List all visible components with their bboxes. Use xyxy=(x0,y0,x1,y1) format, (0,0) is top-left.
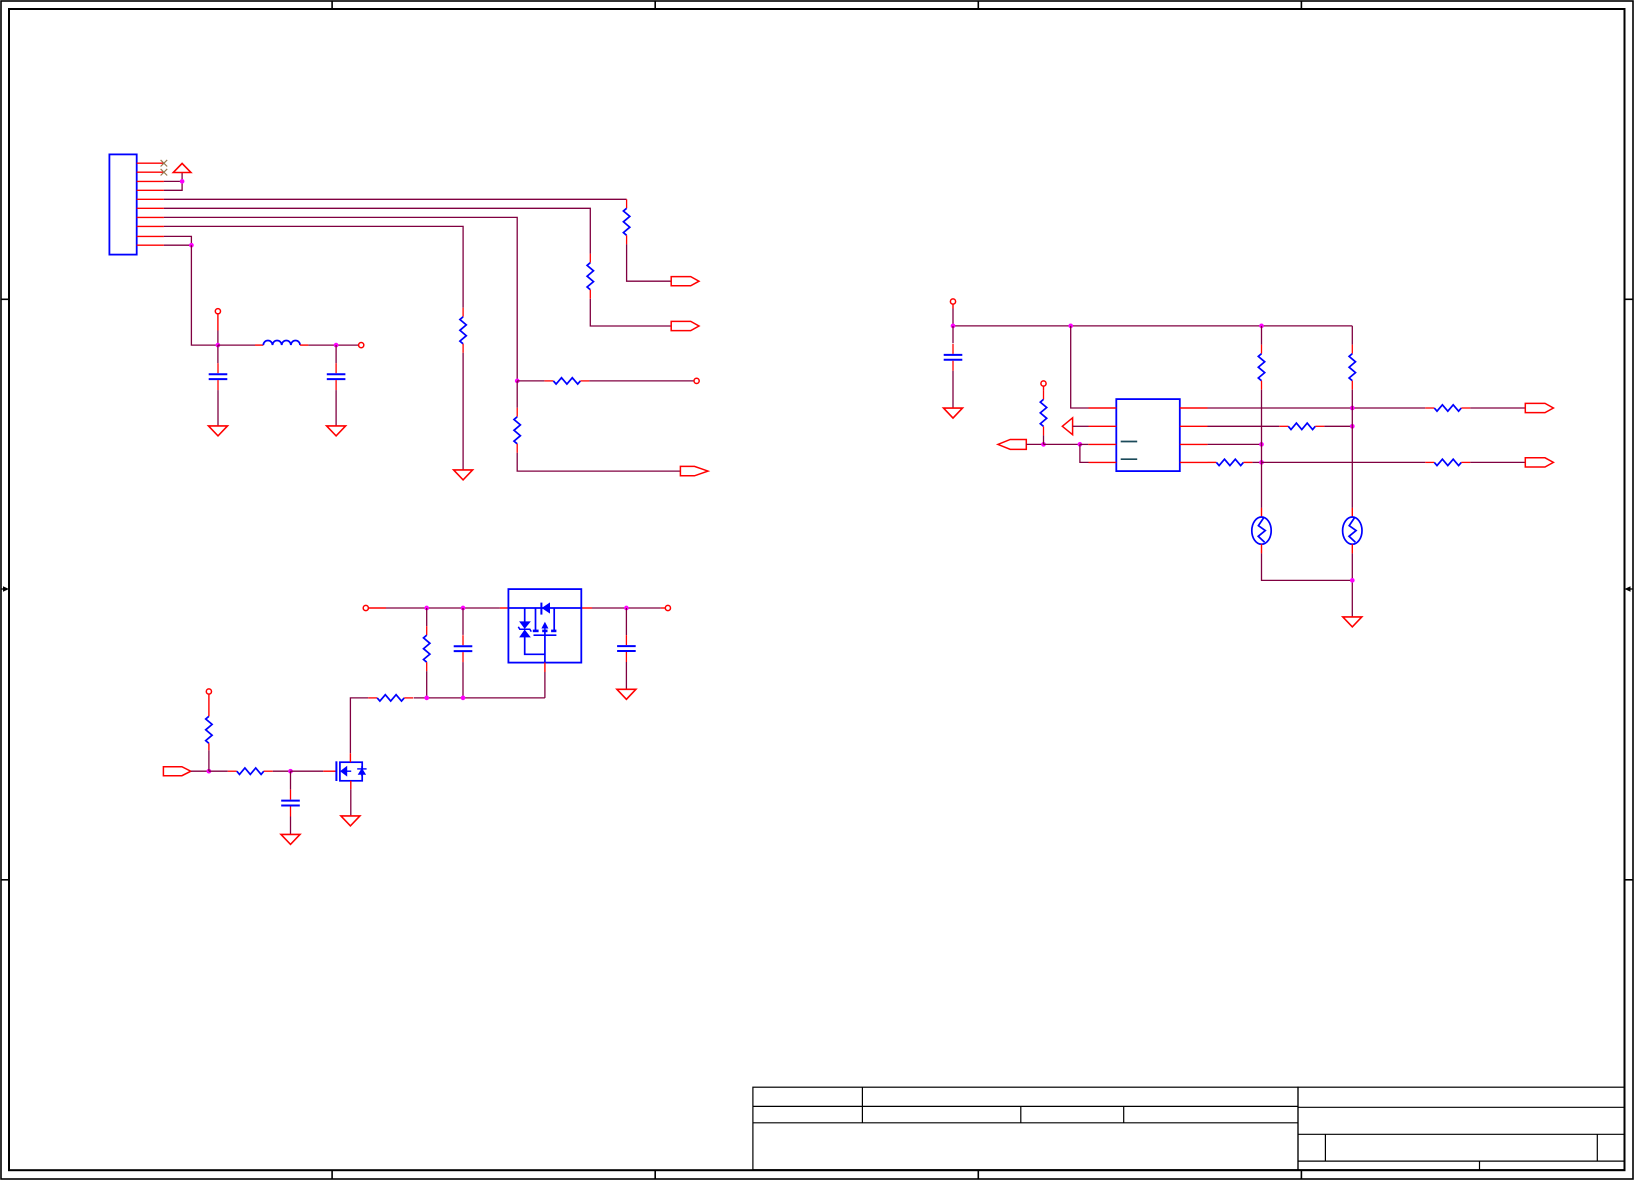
capacitor C2 xyxy=(327,363,346,390)
wire Q2 source pin xyxy=(544,663,546,698)
resistor R15 xyxy=(1425,405,1470,411)
wire R12 to junction xyxy=(208,750,210,771)
wire C1 to ground xyxy=(217,390,219,426)
IC U1 pin 4 xyxy=(1089,461,1117,463)
wire node VIN stub xyxy=(217,314,219,345)
wire R11 left corner xyxy=(350,698,368,753)
wire R7 to V1 xyxy=(1252,461,1261,463)
wire V1 lower xyxy=(1261,444,1263,508)
no-connect X pin 2 xyxy=(161,169,168,176)
port IN3 xyxy=(163,767,190,776)
resistor R8 xyxy=(1279,423,1324,429)
port OUT5 xyxy=(1525,458,1553,467)
wire L1 to node B xyxy=(300,344,359,346)
IC U1 pin 7 xyxy=(1180,425,1208,427)
junction rail at C4 xyxy=(461,606,466,611)
capacitor C5 xyxy=(617,635,636,662)
wire node A down to C1 xyxy=(217,345,219,363)
junction VCC rail at R14 xyxy=(1259,324,1264,329)
junction rail at C5 xyxy=(624,606,629,611)
wire U1 pin8 net OUTA xyxy=(1208,407,1426,409)
wire C3 top xyxy=(952,326,954,343)
resistor R2 xyxy=(587,254,593,299)
power port VCC P1 xyxy=(173,163,191,181)
connector J1 xyxy=(109,154,136,254)
wire U1 pin6 to V1 xyxy=(1208,443,1262,445)
junction node B xyxy=(334,343,339,348)
junction R8 at V2 xyxy=(1350,424,1355,429)
wire pin9 xyxy=(164,236,192,245)
node VOUT xyxy=(359,343,364,348)
junction pins 3-4 xyxy=(180,179,185,184)
junction V2 bottom xyxy=(1350,578,1355,583)
wire R10 top xyxy=(426,608,428,626)
wire Q2 to rail right xyxy=(581,607,626,609)
IC U1 xyxy=(1116,399,1180,471)
node VOUT2_L xyxy=(363,605,368,610)
port IN1 xyxy=(998,439,1026,449)
ground G6 xyxy=(617,689,636,699)
junction gate node B2 xyxy=(288,769,293,774)
IC U1 pin 2 xyxy=(1089,425,1117,427)
junction R6 bottom xyxy=(1041,442,1046,447)
wire VCC2 stub xyxy=(952,304,954,326)
wire N3 down to R4 xyxy=(516,381,518,408)
wire R4 to port OUT3 xyxy=(517,453,680,471)
junction OUTA at V2 xyxy=(1350,406,1355,411)
wire pin5 net N1 xyxy=(164,198,627,200)
zone ticks top xyxy=(332,1,1301,9)
wire R5 to ground xyxy=(462,353,464,470)
wire N3 to R3 xyxy=(517,380,544,382)
wire DS1 to bottom xyxy=(1262,553,1353,580)
connector J1 pins 1-10 xyxy=(137,163,164,245)
ground G2 xyxy=(327,426,346,436)
wire node B down to C2 xyxy=(335,345,337,363)
resistor R1 xyxy=(623,199,629,244)
wire C6 top xyxy=(290,771,292,789)
node TP3 xyxy=(206,689,211,694)
wire branch to U1 pin3 xyxy=(1080,443,1088,445)
wire C5 top xyxy=(625,608,627,635)
wire bottom rail xyxy=(414,697,545,699)
wire to LC filter node A xyxy=(191,245,218,345)
wire TP3 to R12 xyxy=(208,694,210,716)
port OUT3 xyxy=(680,466,708,475)
wire Q1 source xyxy=(350,781,352,816)
resistor R3 xyxy=(544,378,589,384)
IC U1 inner mark 1 xyxy=(1121,441,1138,443)
wire rail right stub xyxy=(626,607,665,609)
wire rail mid xyxy=(427,607,500,609)
wire R1 to port OUT1 xyxy=(627,244,672,281)
junction pins 9-10 xyxy=(189,243,194,248)
wire U1 pin7 to R8 xyxy=(1208,425,1280,427)
wire C4 bottom xyxy=(462,662,464,698)
wire IN2 to U1 pin2 xyxy=(1073,425,1089,427)
wire pin10 xyxy=(164,244,192,246)
center mark right xyxy=(1625,586,1634,592)
port OUT4 xyxy=(1525,403,1553,412)
junction VCC rail at C3 xyxy=(951,324,956,329)
junction branch pin3/pin4 xyxy=(1078,442,1083,447)
junction rail at R10 xyxy=(424,606,429,611)
inductor L1 xyxy=(263,340,300,345)
wire C4 top xyxy=(462,608,464,635)
resistor R11 xyxy=(368,695,413,701)
wire C5 to ground xyxy=(625,662,627,689)
node TP2 xyxy=(1041,381,1046,386)
node VCC2 xyxy=(950,299,955,304)
lamp DS1 xyxy=(1252,508,1271,554)
wire R8 to V2 xyxy=(1324,425,1352,427)
wire pin6 net N2 xyxy=(164,208,590,253)
wire C2 to ground xyxy=(335,390,337,426)
junction R7 at V1 xyxy=(1259,460,1264,465)
capacitor C1 xyxy=(209,363,228,390)
wire R15 to port OUT4 xyxy=(1470,407,1525,409)
zone ticks bottom xyxy=(332,1170,1301,1179)
wire V2 lower xyxy=(1351,426,1353,508)
node VIN xyxy=(215,309,220,314)
IC U1 inner mark 2 xyxy=(1121,458,1138,460)
wire R10 bottom xyxy=(426,671,428,698)
ground G4 xyxy=(1343,617,1362,627)
ground G8 xyxy=(341,816,360,826)
ground G3 xyxy=(944,408,963,418)
junction bottom rail at C4 xyxy=(461,696,466,701)
resistor R4 xyxy=(514,408,520,453)
wire C3 to ground xyxy=(952,371,954,408)
wire V2 middle xyxy=(1351,390,1353,427)
wire R6 junction to branch xyxy=(1044,443,1080,445)
ground G7 xyxy=(281,834,300,844)
resistor R16 xyxy=(1425,459,1470,465)
wire V1 upper xyxy=(1261,326,1263,345)
IC U1 pin 5 xyxy=(1180,461,1208,463)
resistor R12 xyxy=(206,716,212,750)
ground G1 xyxy=(209,426,228,436)
wire gate node to Q1 xyxy=(291,770,336,772)
center mark left xyxy=(1,586,9,592)
resistor R14 xyxy=(1258,345,1264,390)
resistor R7 xyxy=(1208,459,1253,465)
wire pin7 net N3 xyxy=(164,217,517,381)
wire R6 to junction xyxy=(1043,435,1045,444)
wire V1 middle xyxy=(1261,390,1263,445)
resistor R5 xyxy=(460,308,466,353)
wire pin8 net N4 xyxy=(164,226,463,307)
wire C6 to ground xyxy=(290,817,292,835)
wire U1 power feed xyxy=(1071,326,1089,408)
wire pin4 up xyxy=(164,181,182,190)
port OUT1 xyxy=(671,277,699,286)
no-connect X pin 1 xyxy=(161,160,168,167)
wire node A to L1 xyxy=(218,344,263,346)
zone ticks right xyxy=(1625,299,1634,880)
ground G5 xyxy=(454,470,473,480)
wire branch to U1 pin4 xyxy=(1080,444,1089,462)
wire TP2 to R6 xyxy=(1043,386,1045,390)
capacitor C6 xyxy=(281,790,300,817)
junction bottom rail at R10 xyxy=(424,696,429,701)
wire junction to R13 xyxy=(209,770,228,772)
resistor R17 xyxy=(1349,345,1355,390)
wire pin3 to junction xyxy=(164,180,182,182)
resistor R6 xyxy=(1040,390,1046,435)
wire Q1 drain xyxy=(349,753,351,762)
junction gate node A2 xyxy=(207,769,212,774)
wire VCC rail xyxy=(953,325,1352,327)
junction node A xyxy=(216,343,221,348)
wire IN1 to R6 junction xyxy=(1026,443,1043,445)
IC U1 pin 3 xyxy=(1088,443,1116,445)
capacitor C4 xyxy=(454,635,473,662)
transistor Q1 MOSFET xyxy=(336,761,366,781)
junction node N3 xyxy=(515,379,520,384)
node VOUT2_R xyxy=(665,605,670,610)
junction pin6 at V1 xyxy=(1259,442,1264,447)
title block right table xyxy=(1298,1087,1624,1170)
resistor R10 xyxy=(424,626,430,671)
lamp DS2 xyxy=(1343,508,1362,554)
node TP1 xyxy=(694,378,699,383)
wire R3 to node TP1 xyxy=(589,380,694,382)
zone ticks left xyxy=(1,299,9,880)
wire V2 from rail xyxy=(1351,326,1353,345)
wire net OUTB xyxy=(1262,461,1426,463)
wire rail to Q2 xyxy=(500,607,509,609)
port IN2 arrow xyxy=(1062,418,1072,435)
title block left table xyxy=(753,1087,1298,1170)
wire R16 to port OUT5 xyxy=(1470,461,1525,463)
port OUT2 xyxy=(671,321,699,330)
wire rail left stub xyxy=(368,607,426,609)
transistor Q2 dual MOSFET pack xyxy=(508,589,581,663)
IC U1 pin 1 xyxy=(1089,407,1117,409)
capacitor C3 xyxy=(944,344,963,371)
junction VCC rail at U1 feed xyxy=(1068,324,1073,329)
IC U1 pin 8 xyxy=(1180,407,1208,409)
wire V2 to ground xyxy=(1351,553,1353,617)
wire R2 to port OUT2 xyxy=(590,299,671,326)
resistor R13 xyxy=(228,768,273,774)
IC U1 pin 6 xyxy=(1180,443,1208,445)
wire R13 to gate node xyxy=(273,770,291,772)
wire IN3 to junction xyxy=(191,770,209,772)
